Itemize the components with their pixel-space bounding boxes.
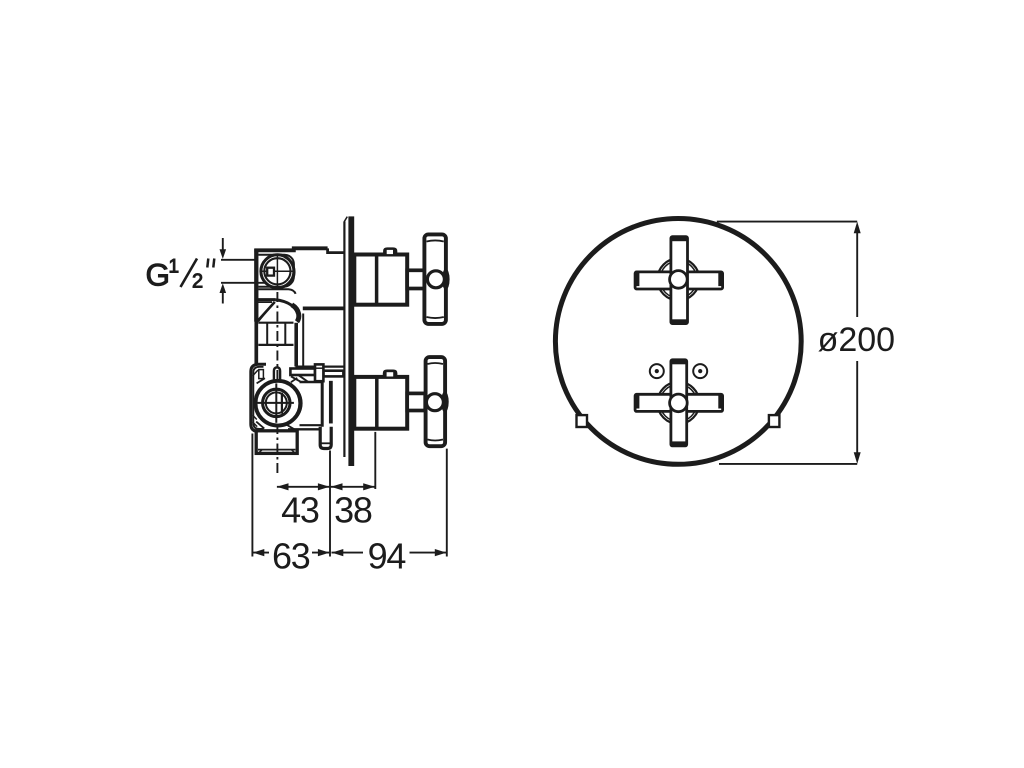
mounting tab right bbox=[769, 415, 780, 427]
top hub bbox=[670, 271, 688, 289]
extension line G1/2 bottom bbox=[221, 282, 266, 284]
rod and clip (lower, to plate) bbox=[290, 369, 315, 376]
extension line middle (43/38/63/94) bbox=[329, 451, 331, 557]
dimension arrow G1/2 bottom bbox=[220, 283, 227, 303]
lower handle dark cap bbox=[441, 392, 449, 413]
screw left bbox=[650, 364, 664, 378]
svg-text:ø200: ø200 bbox=[818, 321, 896, 359]
lower hub bbox=[426, 394, 443, 411]
pipe shoulder lines bbox=[258, 322, 293, 324]
mounting tab (lower left, rounded) bbox=[251, 364, 266, 431]
retaining strip bbox=[330, 382, 332, 423]
elbow inner diagonal bbox=[258, 306, 271, 322]
trim plate circle bbox=[555, 219, 801, 465]
svg-text:43: 43 bbox=[281, 489, 319, 530]
svg-text:94: 94 bbox=[368, 535, 406, 576]
upper cartridge bump bbox=[384, 248, 397, 253]
dim top connector line bbox=[717, 221, 857, 223]
vertical centerline bbox=[276, 292, 278, 382]
upper port inner circle bbox=[264, 258, 290, 284]
lower boss right crescent bbox=[291, 385, 302, 422]
svg-text:38: 38 bbox=[334, 489, 372, 530]
pipe outer walls bbox=[254, 322, 258, 367]
bottom hub bbox=[670, 394, 688, 412]
lower cartridge bbox=[354, 377, 407, 429]
lower cartridge divider bbox=[375, 377, 379, 429]
elbow right edge bbox=[302, 314, 304, 367]
screw right bbox=[693, 364, 707, 378]
hex nut below block bbox=[256, 431, 297, 454]
dim vertical line with arrows bbox=[854, 222, 861, 464]
svg-text:1: 1 bbox=[169, 257, 180, 278]
svg-text:G: G bbox=[146, 257, 171, 293]
lower port secondary mark bbox=[281, 393, 283, 414]
wall plate front line bbox=[343, 222, 345, 458]
port boss inner outline bbox=[258, 255, 294, 287]
mounting tab inner line bbox=[253, 367, 263, 429]
lower cartridge bump bbox=[383, 370, 397, 376]
neck bottom line (upper) bbox=[303, 307, 344, 311]
bottom rosette rings bbox=[657, 382, 699, 424]
mounting tab left bbox=[577, 415, 588, 427]
svg-text:63: 63 bbox=[272, 535, 310, 576]
top rosette rings bbox=[657, 258, 699, 300]
label G1/2" bbox=[146, 257, 215, 293]
extension line right (94) bbox=[446, 449, 448, 557]
upper port key slot bbox=[267, 268, 274, 276]
elbow right curl bbox=[292, 305, 299, 322]
lower port rings bbox=[263, 389, 290, 416]
upper port crescent bbox=[284, 257, 294, 278]
port boss second line bbox=[258, 289, 295, 294]
upper handle dark cap bbox=[442, 269, 450, 290]
top cross horizontal arm bbox=[635, 272, 723, 289]
lower handle cap lines bbox=[428, 363, 444, 364]
bottom cross vertical arm bbox=[671, 360, 687, 446]
valve body top edge bbox=[254, 248, 327, 250]
lower stem bbox=[407, 393, 425, 410]
wedges under rod bbox=[291, 376, 302, 382]
upper handle cap lines bbox=[427, 240, 444, 241]
upper handle bar bbox=[424, 234, 446, 324]
elbow arch arc bbox=[275, 300, 297, 313]
dimension row 43/38 bbox=[277, 483, 375, 490]
pipe bore lines bbox=[266, 323, 268, 345]
dim bottom connector line bbox=[719, 463, 857, 465]
lower boss circle bbox=[256, 381, 301, 426]
lower handle bar bbox=[426, 357, 446, 446]
elbow chord diagonal bbox=[258, 302, 275, 321]
extension line G1/2 top bbox=[221, 259, 255, 261]
lower port crosshair bbox=[257, 402, 294, 404]
extension line 38 right bbox=[374, 432, 376, 489]
drain tab bbox=[320, 427, 331, 449]
elbow flat top inner line bbox=[258, 301, 273, 303]
extension line left (63) bbox=[251, 434, 253, 557]
dimension row 63/94 bbox=[253, 549, 447, 556]
upper port crosshair bbox=[261, 270, 295, 272]
upper cartridge divider bbox=[375, 255, 379, 305]
dimension arrow G1/2 top bbox=[220, 238, 227, 259]
valve body left edge bbox=[254, 249, 258, 322]
neck step and neck top line bbox=[328, 248, 344, 252]
upper port outer circle bbox=[261, 255, 294, 288]
top cross vertical arm bbox=[671, 237, 688, 324]
mounting tab hatches bbox=[253, 370, 259, 376]
upper cartridge bbox=[354, 255, 407, 305]
svg-text:2: 2 bbox=[192, 271, 203, 293]
lower block right portion bbox=[300, 381, 324, 383]
upper hub bbox=[427, 271, 444, 288]
elbow flat top line bbox=[258, 298, 276, 301]
bleed screw slot bbox=[274, 367, 280, 385]
mounting tab slot bbox=[259, 370, 264, 379]
wall plate bevel bbox=[344, 217, 347, 222]
lower shoulder line bbox=[295, 366, 343, 368]
upper stem bbox=[407, 270, 425, 288]
wall plate bar bbox=[348, 216, 354, 466]
corner wedges around boss bbox=[257, 378, 265, 383]
bottom cross horizontal arm bbox=[635, 394, 723, 411]
